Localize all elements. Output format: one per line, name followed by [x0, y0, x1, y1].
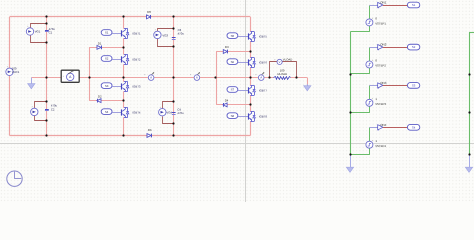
svg-text:S3: S3	[412, 84, 416, 88]
svg-text:IGBT1: IGBT1	[132, 32, 141, 36]
svg-text:S3: S3	[105, 84, 109, 88]
wire D2 branch	[90, 78, 124, 101]
wire VG2-C2 loop	[35, 102, 47, 121]
diode D6	[147, 128, 152, 138]
ammeter AM2	[144, 72, 154, 80]
diode D5	[147, 10, 152, 19]
wire comparator output ON3	[383, 85, 408, 87]
wire control right rail green	[469, 33, 474, 155]
wire gate lead IGBT4	[112, 112, 122, 114]
voltage source VG4	[159, 106, 173, 116]
voltage source VDC1	[6, 66, 20, 76]
voltmeter VLOAD	[274, 57, 292, 64]
svg-text:VSTEP3: VSTEP3	[375, 102, 386, 106]
page divider vertical line	[245, 0, 247, 202]
gating block S6	[227, 59, 238, 65]
wire control branch VSTEP3	[351, 86, 370, 113]
svg-text:IGBT4: IGBT4	[132, 111, 141, 115]
capacitor C1	[45, 27, 55, 35]
wire control branch VSTEP2	[351, 48, 370, 74]
svg-text:S2: S2	[412, 45, 416, 49]
wire gate lead IGBT8	[238, 116, 248, 118]
step source VSTEP1	[366, 17, 386, 26]
svg-text:IGBT3: IGBT3	[132, 85, 141, 89]
voltage source VG3	[154, 29, 169, 39]
page divider horizontal line	[0, 143, 474, 145]
wire comparator input ON2	[369, 47, 377, 49]
svg-text:S5: S5	[231, 34, 235, 38]
gating block S7	[227, 87, 238, 93]
wire capacitor column left	[46, 17, 48, 136]
wire gate lead IGBT1	[112, 33, 122, 35]
transistor IGBT5	[249, 32, 268, 42]
capacitor C4	[172, 107, 184, 115]
svg-text:VG3: VG3	[162, 33, 168, 37]
wire VG1-C1 loop	[31, 24, 47, 43]
wire gate lead IGBT7	[238, 90, 248, 92]
gating signal box S3 control	[407, 83, 419, 89]
wire control left rail green	[350, 32, 352, 155]
svg-text:C1: C1	[49, 31, 53, 35]
gating signal box S1 control	[407, 2, 419, 8]
wire control branch VSTEP1	[351, 6, 370, 32]
wire comparator input ON4	[369, 127, 377, 129]
svg-text:S8: S8	[231, 114, 235, 118]
voltage source VG1	[26, 25, 40, 35]
wire right leg column 2	[250, 17, 252, 136]
transistor IGBT4	[122, 108, 141, 118]
wire VG4-C4 loop	[163, 102, 174, 124]
svg-text:D3: D3	[225, 45, 229, 49]
wire gate lead IGBT6	[238, 62, 248, 64]
diode D1	[97, 41, 102, 49]
svg-text:470u: 470u	[177, 111, 184, 115]
ground control left	[346, 154, 353, 172]
svg-text:S4: S4	[412, 125, 416, 129]
wire gate lead IGBT3	[112, 86, 122, 88]
svg-text:S2: S2	[105, 57, 109, 61]
wire load ground drop	[307, 78, 309, 86]
step source VSTEP3	[366, 97, 386, 106]
comparator ON3	[378, 81, 387, 89]
gating block S5	[227, 33, 238, 39]
wire D4 branch	[217, 78, 251, 105]
gating block S4	[101, 109, 112, 115]
svg-text:VG1: VG1	[35, 30, 41, 34]
gating block S8	[227, 113, 238, 119]
voltage source VG2	[31, 106, 38, 116]
wire IGBT column 1	[123, 17, 125, 136]
gating block S1	[101, 30, 112, 36]
svg-text:S1: S1	[412, 3, 416, 7]
diode D2	[97, 95, 102, 103]
svg-text:VSTEP1: VSTEP1	[375, 22, 386, 26]
wire control branch VSTEP4	[351, 128, 370, 155]
transistor IGBT6	[249, 58, 268, 68]
junction dots main circuit	[45, 15, 297, 136]
ammeter AM4 load	[255, 72, 264, 80]
step source VSTEP4	[366, 139, 386, 148]
svg-text:V: V	[279, 60, 281, 64]
wire comparator input ON3	[369, 85, 377, 87]
svg-text:VDC1: VDC1	[12, 70, 20, 74]
wire bottom rail	[10, 135, 251, 137]
wire gate lead IGBT5	[238, 36, 248, 38]
svg-text:IGBT8: IGBT8	[259, 115, 268, 119]
comparator ON1	[378, 1, 387, 9]
svg-text:S7: S7	[231, 88, 235, 92]
wire mid bus	[31, 77, 273, 79]
svg-text:VLOAD: VLOAD	[283, 57, 292, 61]
svg-text:IGBT6: IGBT6	[259, 61, 268, 65]
svg-text:ON2: ON2	[380, 43, 387, 47]
wire comparator input ON1	[369, 5, 377, 7]
svg-text:IGBT5: IGBT5	[259, 35, 268, 39]
wire D1 branch	[90, 48, 124, 78]
step source VSTEP2	[366, 59, 386, 68]
svg-text:IGBT2: IGBT2	[132, 58, 141, 62]
capacitor C3	[172, 28, 184, 40]
transistor IGBT1	[122, 28, 141, 38]
wire bus after resistor	[291, 77, 308, 79]
transistor IGBT3	[122, 82, 141, 92]
gating signal box S4 control	[407, 124, 419, 130]
resistor RLOAD	[274, 69, 291, 80]
capacitor C2	[45, 104, 58, 112]
clock icon	[7, 171, 22, 186]
ground at load	[304, 84, 311, 91]
diode D4	[223, 98, 229, 106]
svg-text:A: A	[150, 76, 152, 80]
wire comparator output ON1	[383, 5, 408, 7]
svg-text:C2: C2	[51, 107, 55, 111]
gating signal box S2 control	[407, 44, 419, 50]
wire top rail	[10, 16, 251, 18]
ground control right	[465, 154, 472, 172]
svg-text:IGBT7: IGBT7	[259, 89, 268, 93]
wire left rail	[9, 17, 11, 136]
svg-text:D6: D6	[148, 128, 152, 132]
wire D3 branch	[217, 52, 251, 78]
ammeter AM3	[190, 72, 200, 80]
comparator ON4	[378, 123, 387, 131]
svg-text:VG4: VG4	[166, 111, 172, 115]
transistor IGBT8	[249, 112, 268, 122]
svg-text:470u: 470u	[178, 31, 185, 35]
svg-text:A: A	[260, 76, 262, 80]
svg-text:ON1: ON1	[380, 1, 387, 5]
wire VLOAD loop	[270, 62, 297, 78]
svg-text:RLOAD: RLOAD	[278, 72, 288, 76]
ground at mid bus	[28, 78, 35, 89]
gating block S3	[101, 83, 112, 89]
transistor IGBT2	[122, 54, 141, 64]
transistor IGBT7	[249, 85, 268, 95]
svg-text:ON3: ON3	[380, 81, 387, 85]
diode D3	[223, 45, 229, 54]
svg-text:A: A	[196, 76, 198, 80]
svg-text:VSTEP4: VSTEP4	[375, 144, 386, 148]
junction dots control	[349, 73, 470, 155]
wire comparator output ON2	[383, 47, 408, 49]
svg-text:D5: D5	[147, 10, 151, 14]
gating block S2	[101, 56, 112, 62]
svg-text:ON4: ON4	[380, 123, 387, 127]
svg-text:S4: S4	[105, 110, 109, 114]
svg-text:VSTEP2: VSTEP2	[375, 64, 386, 68]
svg-text:D4: D4	[225, 98, 229, 102]
svg-text:D2: D2	[98, 95, 102, 99]
svg-text:S6: S6	[231, 60, 235, 64]
svg-text:D1: D1	[98, 41, 102, 45]
wire gate lead IGBT2	[112, 59, 122, 61]
comparator ON2	[378, 43, 387, 51]
wire comparator output ON4	[383, 127, 408, 129]
wire middle column	[173, 17, 175, 136]
wire VG3-C3 loop	[158, 29, 174, 47]
ammeter instrument AM1 box	[61, 70, 79, 82]
svg-text:S1: S1	[105, 31, 109, 35]
